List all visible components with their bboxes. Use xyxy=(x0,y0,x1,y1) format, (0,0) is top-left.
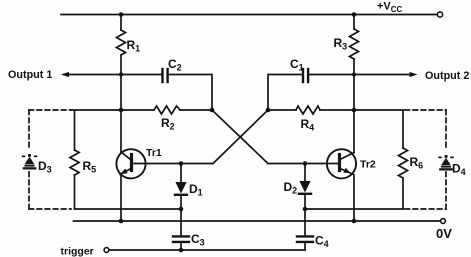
resistor R3 xyxy=(350,29,359,59)
wire R4 right to R6 xyxy=(320,109,403,111)
node emitter2 / 0V xyxy=(352,219,357,224)
diode D2 xyxy=(299,164,311,236)
wire cross diagonal right-to-left xyxy=(213,110,268,164)
terminal 0V xyxy=(441,219,446,224)
wire cross diagonal left-to-right xyxy=(212,110,268,164)
resistor R5 column xyxy=(74,110,76,150)
wire 0V rail xyxy=(74,220,441,222)
terminal +Vcc xyxy=(437,12,442,17)
node top rail / R3 xyxy=(352,12,357,17)
wire R6 bottom xyxy=(402,178,404,209)
node collector line R1 y110 xyxy=(119,108,124,113)
arrowhead output2 xyxy=(410,72,418,77)
wire R1 bottom to collector xyxy=(120,55,122,152)
diode D1 xyxy=(175,164,187,236)
wire emitter Tr2 down xyxy=(353,175,355,221)
wire bottom-left y209 xyxy=(75,208,182,210)
node top rail / R1 xyxy=(119,12,124,17)
wire C4 bottom xyxy=(304,243,306,250)
svg-text:Output 1: Output 1 xyxy=(8,69,52,81)
node trigger / C3 xyxy=(179,248,184,253)
dashed box D3 xyxy=(29,110,71,209)
dashed box D4 xyxy=(405,110,446,209)
wire base lead Tr2 xyxy=(268,163,339,165)
terminal trigger xyxy=(104,248,109,253)
diode D4 symbol xyxy=(438,155,454,171)
node base Tr1 / D1 xyxy=(179,161,184,166)
wire +Vcc top rail xyxy=(61,14,437,16)
wire C3 bottom xyxy=(180,243,182,250)
node emitter1 / 0V xyxy=(119,219,124,224)
node base Tr2 / D2 xyxy=(303,161,308,166)
node D1 bottom xyxy=(179,207,184,212)
wire C2 right to corner xyxy=(169,75,212,111)
svg-text:Tr2: Tr2 xyxy=(360,159,376,171)
arrowhead output1 xyxy=(61,72,69,77)
capacitor C3 xyxy=(173,236,189,242)
transistor Q Tr2 xyxy=(327,149,356,178)
wire output2 line xyxy=(309,74,410,76)
wire R3 bottom to node xyxy=(353,59,355,153)
wire base rail left y110 xyxy=(71,109,154,111)
node R2/C2/cross xyxy=(210,108,215,113)
resistor R1 xyxy=(117,30,126,55)
resistor R5 xyxy=(70,150,79,175)
node output2 / collector2 xyxy=(352,72,356,76)
resistor R6 column xyxy=(402,110,404,148)
capacitor C2 xyxy=(163,69,168,82)
svg-text:Output 2: Output 2 xyxy=(425,70,469,82)
node output1 / collector1 xyxy=(119,72,123,76)
capacitor C1 xyxy=(303,69,308,82)
node R4/C1/cross xyxy=(266,108,271,113)
wire R1 column upper xyxy=(120,15,122,31)
wire trigger line xyxy=(109,249,305,251)
svg-text:trigger: trigger xyxy=(61,246,94,257)
wire output1 line xyxy=(64,74,161,76)
wire base lead Tr1 xyxy=(134,163,213,165)
resistor R2 xyxy=(154,106,180,114)
svg-text:Tr1: Tr1 xyxy=(146,147,162,159)
svg-text:0V: 0V xyxy=(436,226,452,241)
diode D3 symbol xyxy=(22,154,38,170)
wire base rail right y110 xyxy=(268,109,296,111)
wire emitter Tr1 down xyxy=(120,175,122,221)
wire R2 right to node xyxy=(180,109,212,111)
resistor R6 xyxy=(399,148,408,178)
node collector line R3 y110 xyxy=(352,108,357,113)
wire C1 left corner xyxy=(268,75,302,111)
wire bottom-right y209 xyxy=(305,208,403,210)
capacitor C4 xyxy=(297,236,313,242)
transistor Q Tr1 xyxy=(116,149,145,178)
wire R3 column upper xyxy=(353,15,355,30)
wire R5 bottom xyxy=(74,175,76,209)
node D2 bottom xyxy=(303,207,308,212)
resistor R4 xyxy=(296,106,320,114)
